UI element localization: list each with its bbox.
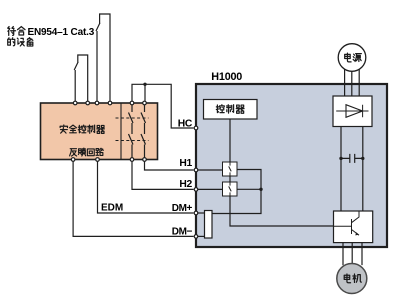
wire DM- bbox=[198, 235, 205, 237]
wire EDM/DM+ bbox=[98, 160, 194, 213]
controller box 控制器 bbox=[204, 100, 258, 120]
svg-text:DM−: DM− bbox=[172, 226, 193, 237]
svg-text:EDM: EDM bbox=[101, 202, 123, 213]
label 安全控制器 bbox=[60, 125, 104, 133]
wire DM- bbox=[73, 160, 193, 236]
label 反馈回路 bbox=[70, 148, 104, 156]
wire gate bbox=[230, 196, 352, 226]
linked contacts column 1 bbox=[129, 103, 134, 160]
wire H1 into block1 bbox=[198, 169, 223, 171]
H1000 terminals bbox=[194, 126, 198, 238]
linkage dashed lines bbox=[116, 117, 149, 119]
caption 符合EN954-1 Cat.3 的设备 bbox=[8, 27, 95, 46]
IGBT Q1 bbox=[334, 211, 360, 235]
safe disable block 2 bbox=[223, 182, 238, 196]
motor wires bbox=[343, 243, 362, 266]
diode D1 bbox=[346, 105, 363, 118]
capacitor C1 bbox=[341, 154, 363, 163]
junction bbox=[259, 188, 262, 191]
pink box terminals top bbox=[71, 101, 146, 161]
EDM feedback resistor bbox=[205, 211, 213, 239]
rectifier box bbox=[333, 96, 372, 127]
svg-text:H1000: H1000 bbox=[211, 71, 242, 83]
svg-text:H2: H2 bbox=[179, 179, 192, 190]
svg-text:DM+: DM+ bbox=[172, 203, 193, 214]
wire DM+ bbox=[198, 212, 205, 214]
pink box terminals bottom bbox=[71, 158, 75, 162]
motor circle 电机 bbox=[337, 264, 367, 294]
wire H2 into block2 bbox=[198, 188, 223, 190]
wire HC link bbox=[132, 84, 194, 128]
wire controller to block1 bbox=[229, 119, 231, 162]
inverter box bbox=[334, 211, 373, 243]
switch S2 bbox=[96, 14, 110, 102]
DC bus wires bbox=[341, 127, 363, 212]
switch S1 bbox=[74, 55, 88, 102]
H1000 enclosure bbox=[196, 84, 387, 247]
wire H1 bbox=[145, 160, 194, 170]
power source circle 电源 bbox=[338, 44, 366, 72]
wire block outputs to monitor bbox=[212, 170, 261, 214]
svg-text:EN954–1 Cat.3: EN954–1 Cat.3 bbox=[28, 27, 95, 38]
junction bbox=[143, 83, 146, 86]
power wires bbox=[345, 68, 360, 96]
linked contacts column 2 bbox=[141, 103, 146, 160]
divider bbox=[120, 103, 122, 160]
wire H2 bbox=[132, 160, 194, 189]
svg-text:H1: H1 bbox=[179, 158, 192, 169]
safe disable block 1 bbox=[223, 162, 238, 176]
svg-text:HC: HC bbox=[178, 118, 193, 129]
safety controller box bbox=[41, 103, 158, 160]
wire between blocks bbox=[229, 176, 231, 182]
